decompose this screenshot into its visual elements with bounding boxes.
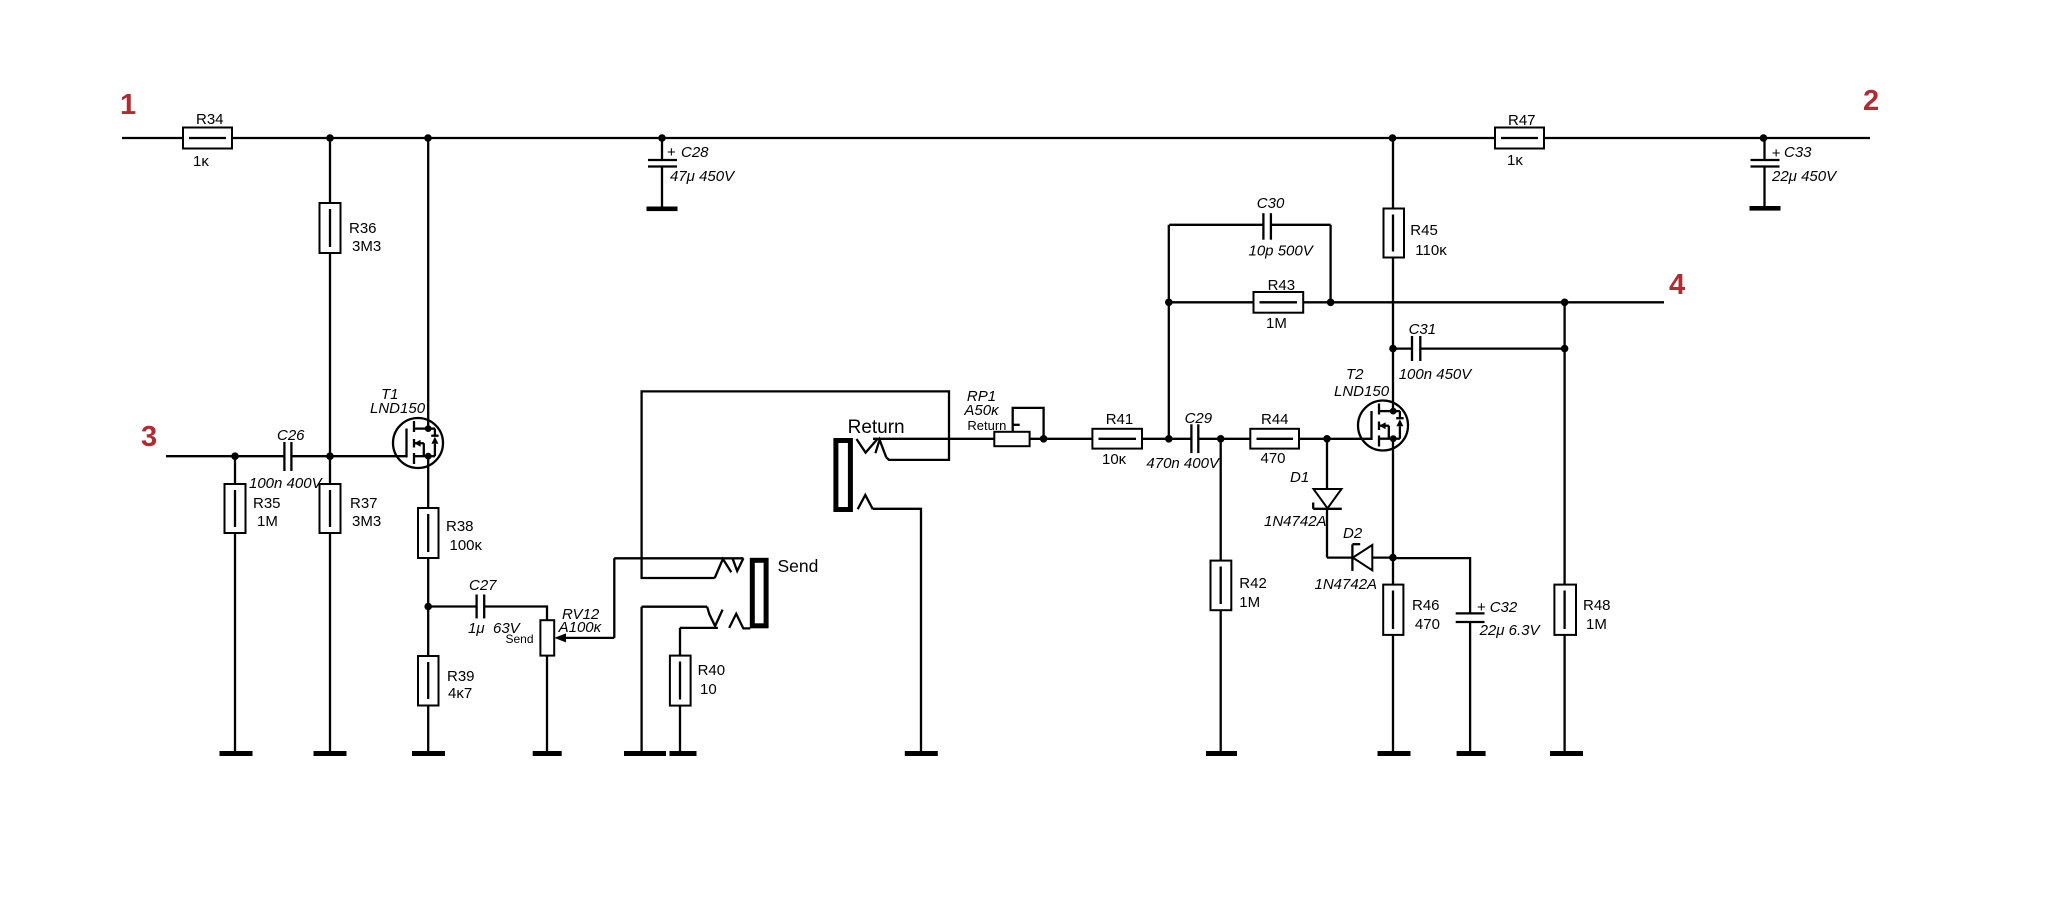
- junction: top bus / C33: [1760, 134, 1768, 142]
- resistor R48: [1554, 585, 1610, 753]
- svg-text:1: 1: [120, 89, 136, 121]
- svg-text:100n 450V: 100n 450V: [1399, 366, 1474, 383]
- wire: C30 right leg: [1329, 225, 1331, 302]
- svg-text:22μ 450V: 22μ 450V: [1771, 168, 1838, 185]
- ground: R35: [220, 751, 253, 756]
- potentiometer RV12: [540, 606, 602, 656]
- wire: Return sleeve to ground: [873, 509, 921, 752]
- node 2 label: [1863, 85, 1879, 117]
- svg-text:D2: D2: [1343, 525, 1363, 542]
- svg-text:LND150: LND150: [1334, 383, 1390, 400]
- junction: node 4 / C30 left column: [1165, 299, 1173, 307]
- junction: top bus / R45 column: [1389, 134, 1397, 142]
- resistor R40: [670, 628, 725, 752]
- zener diode D2 1N4742A: [1315, 525, 1393, 593]
- node 1 label: [120, 89, 136, 121]
- resistor R35: [225, 456, 281, 752]
- resistor R38: [418, 508, 483, 558]
- svg-text:1M: 1M: [257, 513, 278, 530]
- wire: node 4 line: [1169, 301, 1664, 303]
- wire: node 3 input line: [166, 455, 407, 457]
- junction: D2 / R46 / C32: [1389, 554, 1397, 562]
- jack body: Send: [752, 560, 766, 626]
- junction: node 3 / R36-R37 column: [326, 452, 334, 460]
- wire: RP1 to T2 gate: [1030, 438, 1372, 440]
- svg-text:4κ7: 4κ7: [448, 685, 472, 702]
- svg-text:22μ 6.3V: 22μ 6.3V: [1479, 622, 1542, 639]
- ground: R46: [1378, 751, 1411, 756]
- svg-text:C26: C26: [277, 427, 305, 444]
- ground: Return sleeve: [905, 751, 938, 756]
- svg-text:4: 4: [1669, 269, 1685, 301]
- capacitor C27: [428, 577, 521, 637]
- wire: T2 source to R46: [1392, 439, 1394, 585]
- wiper of RV12: [554, 558, 614, 642]
- transistor T1 LND150: [370, 386, 443, 468]
- ground: C33: [1750, 206, 1781, 211]
- junction: top bus / R36 column: [326, 134, 334, 142]
- svg-text:A100κ: A100κ: [558, 619, 603, 636]
- svg-text:R45: R45: [1410, 222, 1438, 239]
- junction: C27 tap: [424, 603, 432, 611]
- svg-text:47μ 450V: 47μ 450V: [670, 168, 736, 185]
- wire: send switch to return switch link: [642, 391, 949, 578]
- svg-text:Send: Send: [778, 556, 819, 576]
- svg-text:1M: 1M: [1266, 315, 1287, 332]
- svg-text:LND150: LND150: [370, 400, 426, 417]
- svg-text:D1: D1: [1290, 469, 1309, 486]
- svg-text:R47: R47: [1508, 112, 1536, 129]
- svg-text:R38: R38: [446, 518, 474, 535]
- svg-text:470: 470: [1261, 450, 1286, 467]
- svg-text:10p 500V: 10p 500V: [1249, 243, 1315, 260]
- svg-text:C29: C29: [1185, 410, 1213, 427]
- junction: top bus / C28: [658, 134, 666, 142]
- label: Send (RV12 wiper): [506, 632, 534, 646]
- svg-text:R36: R36: [349, 220, 377, 237]
- junction: signal / C30-R43 column: [1165, 435, 1173, 443]
- svg-text:C27: C27: [469, 577, 497, 594]
- wire: T1 drain column: [427, 138, 429, 429]
- potentiometer RP1: [963, 388, 1029, 446]
- svg-text:2: 2: [1863, 85, 1879, 117]
- svg-text:R46: R46: [1412, 597, 1440, 614]
- ground: R48: [1550, 751, 1583, 756]
- svg-text:R35: R35: [253, 495, 281, 512]
- svg-text:100n 400V: 100n 400V: [249, 475, 324, 492]
- svg-text:R48: R48: [1583, 597, 1611, 614]
- zener diode D1 1N4742A: [1264, 439, 1342, 558]
- resistor R37: [320, 456, 382, 752]
- svg-text:Return: Return: [848, 417, 905, 438]
- sleeve contact pair: Send jack: [642, 607, 751, 629]
- capacitor C33: [1751, 138, 1839, 207]
- svg-text:R34: R34: [196, 111, 224, 128]
- svg-text:R44: R44: [1261, 411, 1289, 428]
- wire: R45 column (top bus to T2 drain): [1392, 138, 1394, 411]
- junction: signal / R42: [1217, 435, 1225, 443]
- svg-text:1μ: 1μ: [468, 620, 485, 637]
- resistor R34: [183, 111, 232, 170]
- svg-text:10κ: 10κ: [1102, 451, 1127, 468]
- svg-text:R43: R43: [1268, 277, 1296, 294]
- svg-text:1M: 1M: [1239, 594, 1260, 611]
- node 4 label: [1669, 269, 1685, 301]
- svg-text:+: +: [1772, 145, 1781, 162]
- wiper of RP1: [1013, 408, 1044, 439]
- svg-text:C30: C30: [1257, 195, 1285, 212]
- svg-text:A50κ: A50κ: [963, 402, 1000, 419]
- svg-text:1M: 1M: [1586, 616, 1607, 633]
- resistor R44: [1250, 411, 1299, 467]
- wire: R48 column: [1563, 302, 1565, 584]
- svg-text:470: 470: [1415, 616, 1440, 633]
- wire: Send sleeve to ground: [640, 607, 642, 752]
- jack body: Return: [836, 441, 851, 510]
- node 3 label: [141, 421, 157, 453]
- wire: T1 source to R38: [427, 456, 429, 508]
- junction: signal / D1: [1323, 435, 1331, 443]
- resistor R42: [1211, 439, 1267, 752]
- ground: C28: [647, 207, 678, 212]
- label: Return (RP1 wiper): [967, 418, 1006, 433]
- svg-text:470n 400V: 470n 400V: [1146, 455, 1221, 472]
- ground: Send sleeve: [624, 751, 666, 756]
- capacitor C28: [648, 138, 736, 207]
- tip spring: Return jack: [857, 439, 878, 453]
- capacitor C31: [1393, 321, 1565, 383]
- capacitor C32: [1393, 558, 1542, 752]
- svg-text:T2: T2: [1346, 366, 1364, 383]
- ground: R42: [1206, 751, 1237, 756]
- ground: R39: [412, 751, 445, 756]
- ground: C32: [1457, 751, 1486, 756]
- svg-text:C31: C31: [1409, 321, 1437, 338]
- svg-text:3M3: 3M3: [352, 513, 381, 530]
- wire: C30 left leg / feedback column: [1168, 225, 1170, 439]
- junction: RP1 wiper / output: [1040, 435, 1048, 443]
- svg-text:C28: C28: [681, 144, 709, 161]
- junction: top bus / T1 drain column: [424, 134, 432, 142]
- junction: node 4 / R48 column: [1561, 299, 1569, 307]
- wire: C27 to RV12: [484, 607, 547, 621]
- svg-text:1N4742A: 1N4742A: [1264, 513, 1327, 530]
- svg-text:3: 3: [141, 421, 157, 453]
- svg-text:1N4742A: 1N4742A: [1315, 576, 1378, 593]
- wire: D1 to D2: [1327, 556, 1352, 558]
- ground: RV12: [533, 751, 562, 756]
- label: Send jack: [778, 556, 819, 576]
- resistor R39: [418, 656, 475, 752]
- transistor T2 LND150: [1334, 366, 1408, 451]
- junction: node 4 / C30 right leg: [1327, 299, 1335, 307]
- wire: RV12 to ground: [546, 656, 548, 752]
- svg-text:R37: R37: [350, 495, 378, 512]
- svg-text:C32: C32: [1490, 599, 1518, 616]
- junction: C31 / R48 column: [1561, 345, 1569, 353]
- wire: top bus from node 1 to node 2: [122, 137, 1870, 139]
- switch contact: Return jack: [875, 440, 886, 458]
- svg-text:+: +: [667, 144, 676, 161]
- resistor R45: [1384, 209, 1448, 260]
- resistor R47: [1495, 112, 1544, 169]
- svg-text:+: +: [1477, 599, 1486, 616]
- svg-text:Send: Send: [506, 632, 534, 646]
- svg-text:R42: R42: [1239, 575, 1267, 592]
- svg-text:100κ: 100κ: [450, 537, 483, 554]
- junction: node 3 / R35: [231, 452, 239, 460]
- wire: R38 to R39: [427, 558, 429, 656]
- svg-text:3M3: 3M3: [352, 238, 381, 255]
- sleeve contact: Return jack: [858, 495, 873, 509]
- resistor R43: [1254, 277, 1304, 332]
- svg-text:Return: Return: [967, 418, 1006, 433]
- tip spring: Send jack: [733, 558, 744, 571]
- svg-text:R41: R41: [1106, 411, 1134, 428]
- svg-text:R40: R40: [698, 662, 726, 679]
- capacitor C26: [249, 427, 324, 492]
- svg-text:10: 10: [700, 681, 717, 698]
- svg-text:1κ: 1κ: [1507, 152, 1523, 169]
- label: Return jack: [848, 417, 905, 438]
- capacitor C30: [1169, 195, 1330, 260]
- wire: Return tip to RP1: [873, 438, 994, 440]
- wire: R36 column (top bus to node 3 line): [329, 138, 331, 456]
- svg-text:R39: R39: [447, 668, 475, 685]
- ground: R40: [670, 751, 697, 756]
- ground: R37: [314, 751, 347, 756]
- svg-text:1κ: 1κ: [193, 153, 209, 170]
- switch contact: Send jack: [715, 559, 732, 578]
- wire: Send jack tip line: [614, 557, 743, 559]
- capacitor C29: [1146, 410, 1221, 472]
- junction: R45 column / C31: [1389, 345, 1397, 353]
- resistor R46: [1383, 585, 1440, 753]
- resistor R41: [1092, 411, 1142, 468]
- svg-text:110κ: 110κ: [1415, 242, 1447, 259]
- svg-text:C33: C33: [1784, 144, 1812, 161]
- resistor R36: [320, 203, 382, 255]
